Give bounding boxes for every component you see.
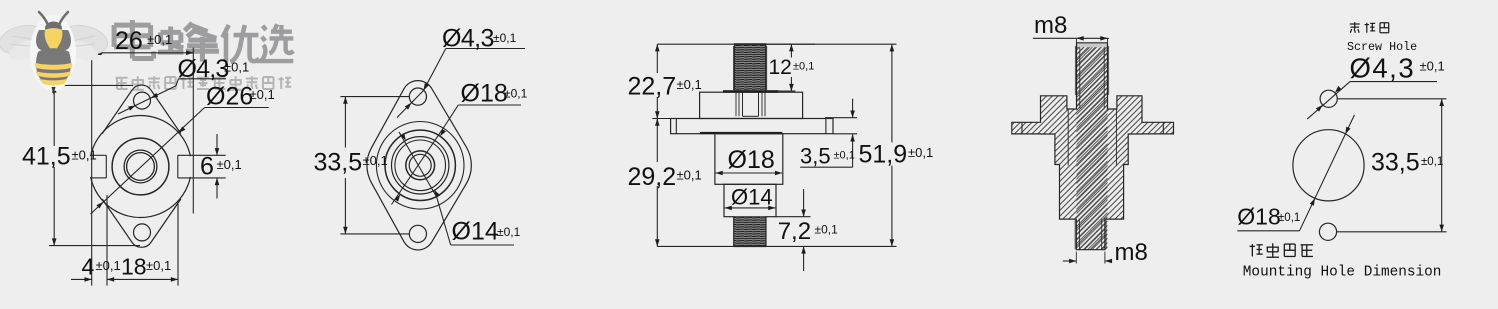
svg-text:m8: m8 [1034, 12, 1067, 39]
svg-text:±0,1: ±0,1 [908, 145, 933, 160]
svg-text:33,5: 33,5 [314, 149, 363, 177]
svg-text:41,5: 41,5 [22, 143, 71, 171]
svg-text:±0,1: ±0,1 [217, 157, 242, 172]
svg-text:Screw Hole: Screw Hole [1347, 40, 1417, 54]
svg-text:±0,1: ±0,1 [363, 153, 388, 168]
svg-text:Ø4,3: Ø4,3 [1350, 53, 1416, 84]
svg-text:Ø18: Ø18 [728, 146, 775, 174]
svg-text:±0,1: ±0,1 [1278, 212, 1300, 224]
svg-text:±0,1: ±0,1 [815, 223, 839, 237]
svg-text:±0,1: ±0,1 [504, 87, 528, 101]
svg-text:±0,1: ±0,1 [147, 32, 172, 47]
svg-text:Ø18: Ø18 [461, 80, 508, 108]
svg-text:Ø4,3: Ø4,3 [442, 25, 494, 53]
svg-text:4: 4 [82, 254, 95, 280]
svg-text:Ø18: Ø18 [1237, 204, 1280, 230]
svg-text:33,5: 33,5 [1371, 149, 1420, 177]
svg-text:±0,1: ±0,1 [224, 60, 249, 75]
svg-text:±0,1: ±0,1 [146, 258, 171, 273]
svg-text:Mounting Hole Dimension: Mounting Hole Dimension [1243, 265, 1442, 281]
svg-text:Ø14: Ø14 [452, 218, 499, 246]
svg-text:±0,1: ±0,1 [1421, 156, 1443, 168]
svg-text:29,2: 29,2 [628, 163, 677, 191]
svg-text:3,5: 3,5 [800, 144, 831, 169]
svg-text:18: 18 [121, 254, 147, 280]
svg-text:±0,1: ±0,1 [72, 148, 97, 163]
svg-text:12: 12 [769, 56, 792, 79]
svg-text:±0,1: ±0,1 [96, 258, 121, 273]
svg-text:7,2: 7,2 [778, 218, 811, 245]
svg-text:m8: m8 [1115, 239, 1148, 266]
svg-text:Ø26: Ø26 [206, 83, 253, 111]
svg-text:51,9: 51,9 [859, 141, 908, 169]
svg-text:22,7: 22,7 [628, 73, 677, 101]
svg-text:±0,1: ±0,1 [834, 150, 855, 162]
svg-text:±0,1: ±0,1 [793, 61, 814, 73]
svg-text:±0,1: ±0,1 [493, 31, 517, 45]
svg-text:Ø14: Ø14 [731, 185, 773, 210]
svg-text:±0,1: ±0,1 [1420, 59, 1445, 74]
svg-text:±0,1: ±0,1 [497, 225, 521, 239]
svg-text:±0,1: ±0,1 [250, 87, 275, 102]
svg-text:26: 26 [115, 27, 143, 55]
svg-text:6: 6 [200, 153, 214, 181]
svg-text:±0,1: ±0,1 [677, 77, 702, 92]
svg-text:Ø4,3: Ø4,3 [178, 55, 229, 83]
svg-text:±0,1: ±0,1 [677, 168, 702, 183]
